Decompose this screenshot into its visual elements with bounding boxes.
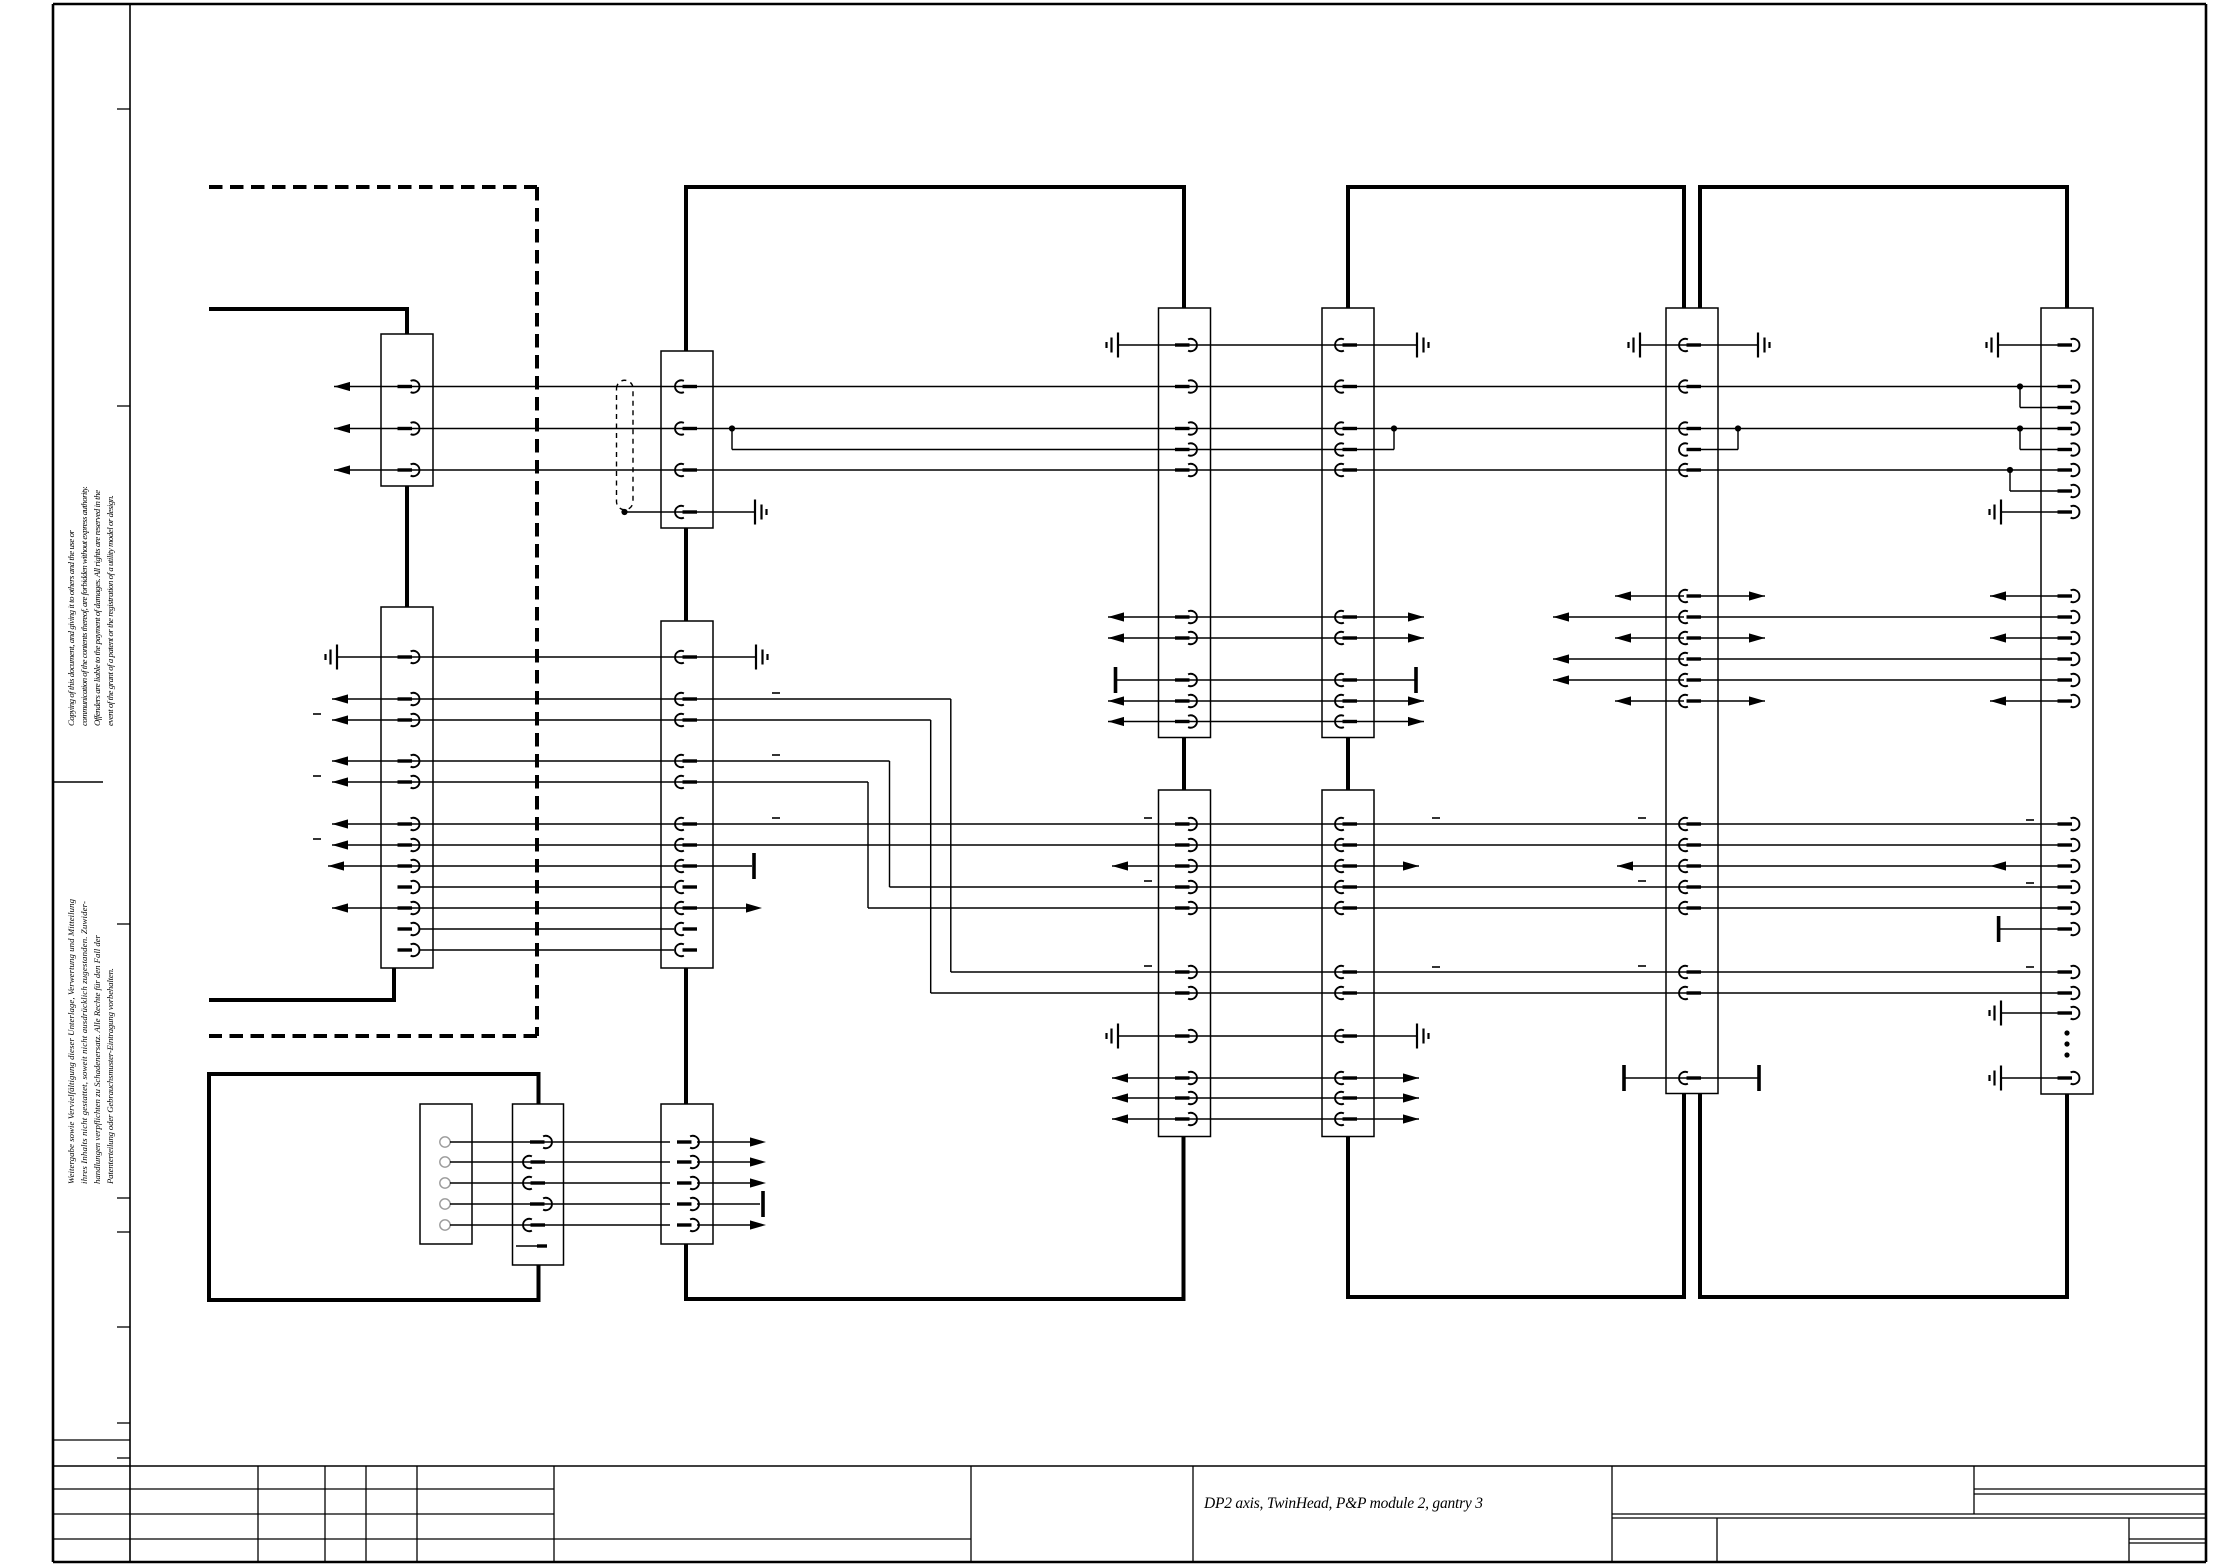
wire row 1225 terminal to X8 [440, 1219, 766, 1231]
wire row 1183 terminal to X8 [440, 1177, 766, 1189]
cable X9-X10 link [1346, 738, 1350, 791]
wire row 659 [1553, 653, 2079, 665]
svg-text:event of the grant of a patent: event of the grant of a patent or the re… [105, 495, 115, 726]
wire row 596 arrows at X11/X12 [1615, 590, 2079, 602]
wire row 657 with grounds [326, 645, 768, 670]
wire row 1204 terminal to X8 [440, 1191, 763, 1217]
wire row 470 (A1-G) [334, 464, 2079, 476]
wire number placeholders [313, 693, 2034, 967]
cable W2 from connector X2 (bottom left) [209, 968, 394, 1000]
copyright note (english, rotated) [66, 486, 115, 726]
svg-text:DP2 axis, TwinHead, P&P module: DP2 axis, TwinHead, P&P module 2, gantry… [1203, 1495, 1483, 1512]
cable X4-X8 link [684, 968, 688, 1104]
margin line [129, 4, 131, 1562]
svg-text:ihres Inhalts nicht gestattet,: ihres Inhalts nicht gestattet, soweit ni… [79, 901, 89, 1184]
cable X3-X4 link [684, 528, 688, 621]
terminal strip outline [420, 1104, 472, 1244]
wire row 824 (A2-G) [332, 818, 2079, 830]
connector X11 outline [1666, 308, 1718, 1094]
jumper to pin row 491 [2010, 470, 2079, 497]
connector X2 outline [381, 607, 433, 968]
wire row 1119 [1112, 1113, 1419, 1125]
wire row 721 [1108, 715, 1424, 727]
connector X12 outline [2041, 308, 2093, 1094]
wire row 701 [1108, 695, 2079, 707]
dashed enclosure boundary [209, 187, 537, 1036]
continuation dots on X12 [2064, 1030, 2069, 1057]
cable W7 connector X11 to X12 (top) [1700, 187, 2067, 308]
wire row 993 (staircase to G) [931, 987, 2080, 999]
cable X1-X2 link [405, 486, 409, 607]
connector X10 outline [1322, 790, 1374, 1137]
wire row 1013 ground at X12 [1990, 1001, 2080, 1026]
wire row 512 shield drain with ground [621, 500, 2079, 525]
title text: DP2 axis, TwinHead, P&P module 2, gantry 3 [1203, 1495, 1483, 1512]
svg-text:communication of the contents: communication of the contents thereof, a… [79, 486, 89, 726]
cable X5-X6 link [1182, 738, 1186, 791]
connector X5 outline [1159, 308, 1211, 738]
svg-text:handlungen verpflichten zu Sch: handlungen verpflichten zu Schadenersatz… [92, 934, 102, 1184]
jumper wires row 449 [732, 429, 2079, 456]
connector X7 outline [513, 1104, 564, 1265]
wire row 428 (A1-G) [334, 422, 2079, 434]
svg-text:Weitergabe sowie Vervielfältig: Weitergabe sowie Vervielfältigung dieser… [66, 898, 76, 1184]
spare pin stub on X7 [516, 1245, 547, 1247]
copyright note (german, rotated) [66, 898, 115, 1185]
svg-text:Offenders are liable to the pa: Offenders are liable to the payment of d… [92, 490, 102, 726]
centre fold mark [53, 781, 103, 783]
wire row 1162 terminal to X8 [440, 1156, 766, 1168]
wire row 1142 terminal to X8 [440, 1136, 766, 1148]
cable W9 loop through connector X7 [209, 1074, 539, 1300]
wire row 386 (A1-G) [334, 380, 2079, 392]
wire row 720 to staircase [332, 714, 931, 993]
connector X3 outline [661, 351, 713, 528]
wire row 761 to staircase [332, 755, 890, 887]
cable shield symbol [617, 380, 634, 509]
wire row 950 [398, 944, 698, 956]
cable W6 connector X10 to X11 (bottom) [1348, 1094, 1684, 1298]
svg-text:Patenterteilung oder Gebrauchs: Patenterteilung oder Gebrauchsmuster-Ein… [105, 968, 115, 1185]
wire row 1078 segments [1112, 1065, 2079, 1091]
wire row 972 (staircase to G) [951, 966, 2080, 978]
wire row 1036 with grounds [1107, 1024, 1429, 1049]
wire row 617 [1108, 611, 2079, 623]
wire row 887 (staircase to G) [398, 881, 2080, 893]
cable W5 connector X9 to X11 (top) [1348, 187, 1684, 308]
connector X1 outline [381, 334, 433, 486]
wire row 929 [398, 916, 2080, 942]
svg-text:Copying of this document, and: Copying of this document, and giving it … [66, 529, 76, 726]
jumper to pin row 407 [2020, 387, 2079, 414]
cable W8 connector X11 to X12 (bottom) [1700, 1094, 2067, 1298]
wire row 699 to staircase [332, 693, 951, 972]
wire row 1098 [1112, 1092, 1419, 1104]
margin tick marks [117, 109, 130, 1458]
wire row 866 segments [328, 853, 2079, 879]
title block grid [53, 1440, 2206, 1562]
connector X9 outline [1322, 308, 1374, 738]
connector X4 outline [661, 621, 713, 968]
cable W4 connector X8 to X6 (bottom) [686, 1137, 1184, 1300]
wire row 908 segments [332, 902, 2079, 914]
cable W1 to connector X1 (top left) [209, 309, 407, 334]
wire row 638 [1108, 632, 2079, 644]
cable W3 connector X3 to X5 (top) [686, 187, 1184, 351]
wire row 845 (A2-G) [332, 839, 2079, 851]
wire row 782 to staircase [332, 776, 868, 908]
wire row 680 with terminations [1116, 667, 2080, 693]
wire row 345 with grounds [1107, 333, 2080, 358]
connector X6 outline [1159, 790, 1211, 1137]
connector X8 outline [661, 1104, 713, 1244]
